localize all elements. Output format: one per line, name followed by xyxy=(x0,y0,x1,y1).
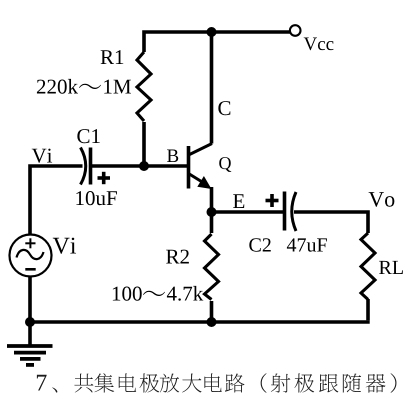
label Vo xyxy=(369,192,395,207)
capacitor C1 straight plate xyxy=(89,148,93,185)
capacitor C2 straight plate xyxy=(283,192,287,231)
label Vi (source) xyxy=(53,238,76,254)
resistor RL xyxy=(361,233,375,300)
label Vi (input node) xyxy=(32,149,52,163)
caption char 射 xyxy=(271,374,291,393)
capacitor C1 plus polarity mark xyxy=(98,172,111,184)
resistor R1 xyxy=(137,52,151,122)
value tilde R1 xyxy=(79,84,101,89)
transistor Q1 base bar xyxy=(187,146,191,189)
transistor Q1 collector stroke xyxy=(189,144,213,156)
value 220k~1M xyxy=(37,79,78,94)
caption char 放 xyxy=(160,374,179,393)
wire emitter vertical down to bottom rail xyxy=(210,187,214,322)
caption char （ xyxy=(261,373,267,393)
label RL xyxy=(379,261,403,274)
node base junction dot xyxy=(139,161,149,171)
AC source sine wave xyxy=(17,250,44,259)
value 10uF xyxy=(76,191,117,205)
node collector junction dot on top rail xyxy=(207,27,217,37)
Vcc terminal circle xyxy=(290,25,301,36)
wire top rail from R1 top to Vcc terminal xyxy=(144,32,290,166)
AC source Vi circle xyxy=(10,235,52,277)
wire base rail left segment (Vi corner to C1) xyxy=(30,166,83,322)
value 100~4.7k xyxy=(113,287,142,301)
caption char 集 xyxy=(95,373,115,392)
ground xyxy=(7,322,53,365)
node emitter junction dot xyxy=(207,207,217,217)
wire collector vertical xyxy=(210,32,214,144)
caption char 跟 xyxy=(319,374,338,393)
caption char 电 xyxy=(119,373,136,392)
label R1 xyxy=(101,50,124,64)
caption char 器 xyxy=(366,374,386,393)
caption char 极 xyxy=(294,373,314,392)
value tilde R2 xyxy=(143,291,165,296)
caption char 极 xyxy=(139,373,159,392)
capacitor C2 plus polarity mark xyxy=(266,194,279,207)
wire emitter rail to C2 xyxy=(212,210,284,214)
wire C2 to Vo corner and down to RL xyxy=(294,212,368,233)
caption char 电 xyxy=(204,373,221,392)
caption char 路 xyxy=(225,373,245,392)
label Q xyxy=(219,157,231,172)
label B xyxy=(167,150,178,162)
node R2 bottom junction dot xyxy=(207,317,217,327)
label Vcc xyxy=(304,38,334,51)
node ground junction dot xyxy=(25,317,35,327)
caption char 大 xyxy=(182,374,201,393)
caption char ） xyxy=(391,373,397,393)
caption: 7、共集电极放大电路（射极跟随器） xyxy=(37,375,47,391)
resistor R2 xyxy=(205,233,219,301)
wire RL bottom to bottom rail xyxy=(366,299,370,320)
label C2 xyxy=(249,238,270,251)
label C xyxy=(218,101,230,115)
label C1 xyxy=(77,129,99,143)
capacitor C1 curved plate xyxy=(81,148,86,185)
value 47uF xyxy=(287,238,327,251)
caption char 随 xyxy=(343,373,361,392)
wire C1 to base xyxy=(91,164,188,168)
AC source plus sign xyxy=(25,238,35,248)
caption char 、 xyxy=(52,387,57,392)
wire bottom rail xyxy=(28,320,369,324)
label E xyxy=(233,194,244,208)
caption char 共 xyxy=(74,374,93,393)
label R2 xyxy=(166,250,189,264)
AC source minus sign xyxy=(25,268,35,271)
capacitor C2 curved plate xyxy=(292,192,296,231)
transistor Q1 emitter stroke with arrow xyxy=(189,174,204,183)
